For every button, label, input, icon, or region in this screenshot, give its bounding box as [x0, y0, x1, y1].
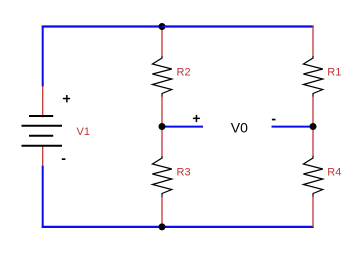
svg-text:R2: R2 — [177, 67, 191, 79]
junction node bottom — [159, 223, 166, 230]
resistor R3 — [152, 126, 171, 227]
svg-text:R3: R3 — [177, 167, 191, 179]
V0 minus sign — [272, 119, 276, 121]
battery minus sign — [62, 158, 66, 160]
resistor R1 — [303, 26, 322, 127]
junction node mid-left — [159, 123, 166, 130]
wire left lower — [42, 166, 44, 228]
wire top — [42, 25, 314, 27]
junction node top — [159, 23, 166, 30]
wire overlay on top node — [162, 26, 167, 28]
wire left upper — [42, 26, 44, 87]
wire V0 left stub — [162, 126, 203, 128]
junction node mid-right — [310, 123, 317, 130]
battery V1 — [22, 86, 63, 166]
svg-text:R4: R4 — [327, 167, 341, 179]
svg-text:V0: V0 — [231, 120, 248, 136]
svg-text:V1: V1 — [77, 126, 90, 138]
resistor R2 — [152, 26, 171, 126]
battery plus sign — [63, 95, 70, 102]
svg-text:R1: R1 — [327, 67, 341, 79]
wire bottom — [42, 226, 314, 228]
resistor R4 — [303, 126, 322, 227]
wire V0 right stub — [272, 126, 314, 128]
V0 plus sign — [193, 115, 200, 122]
